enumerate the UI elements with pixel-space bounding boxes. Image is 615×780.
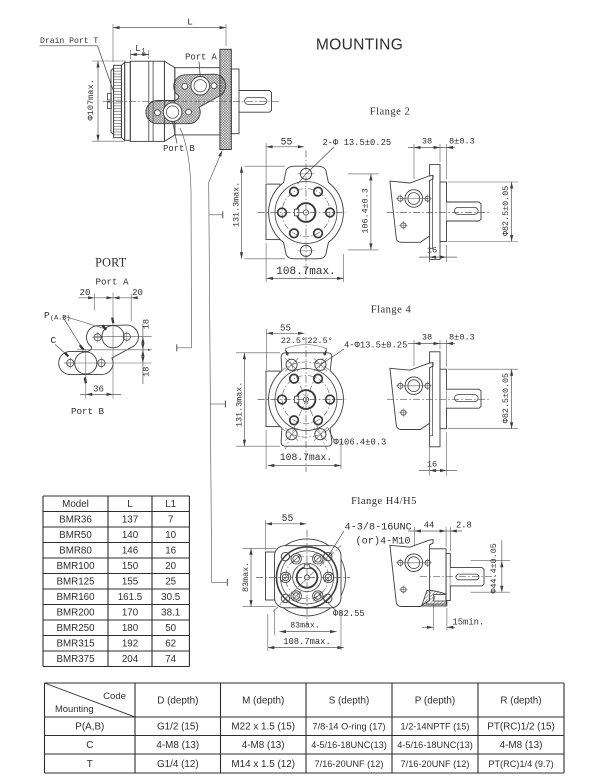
svg-text:4-M8 (13): 4-M8 (13)	[500, 740, 543, 751]
svg-text:Φ82.55: Φ82.55	[333, 609, 365, 619]
svg-text:Φ106.4±0.3: Φ106.4±0.3	[334, 438, 387, 448]
svg-text:M22 x 1.5 (15): M22 x 1.5 (15)	[231, 722, 295, 733]
svg-text:Φ82.5±0.05: Φ82.5±0.05	[501, 373, 511, 423]
svg-text:204: 204	[122, 654, 139, 665]
svg-text:7: 7	[168, 515, 173, 526]
svg-text:PORT: PORT	[95, 256, 127, 270]
svg-text:150: 150	[122, 561, 139, 572]
svg-text:(A.B): (A.B)	[50, 315, 70, 323]
svg-text:62: 62	[165, 639, 176, 650]
svg-text:M14 x 1.5 (12): M14 x 1.5 (12)	[231, 759, 295, 770]
svg-text:T: T	[87, 759, 93, 770]
svg-text:38.1: 38.1	[161, 608, 180, 619]
svg-text:7/16-20UNF (12): 7/16-20UNF (12)	[401, 759, 470, 769]
svg-text:20: 20	[132, 288, 143, 298]
svg-text:74: 74	[165, 654, 176, 665]
svg-text:55: 55	[280, 323, 291, 334]
svg-text:16: 16	[427, 246, 437, 256]
svg-text:Mounting: Mounting	[55, 703, 94, 714]
svg-text:1: 1	[142, 48, 146, 55]
svg-text:7/8-14 O-ring (17): 7/8-14 O-ring (17)	[312, 722, 385, 732]
svg-text:50: 50	[165, 623, 176, 634]
svg-text:131.3max.: 131.3max.	[235, 382, 245, 427]
svg-text:108.7max.: 108.7max.	[283, 637, 331, 647]
svg-text:18: 18	[142, 319, 152, 329]
svg-text:L: L	[187, 17, 193, 28]
svg-text:Flange H4/H5: Flange H4/H5	[351, 496, 417, 507]
svg-text:2-Φ 13.5±0.25: 2-Φ 13.5±0.25	[323, 138, 392, 148]
svg-text:Φ107max.: Φ107max.	[86, 79, 96, 120]
svg-text:P (depth): P (depth)	[415, 696, 455, 707]
svg-text:2.8: 2.8	[456, 521, 472, 531]
svg-text:Drain Port T: Drain Port T	[40, 37, 98, 46]
svg-text:BMR125: BMR125	[56, 577, 95, 588]
svg-text:Port A: Port A	[95, 277, 129, 288]
svg-text:137: 137	[122, 515, 138, 526]
svg-text:16: 16	[427, 460, 437, 470]
svg-text:BMR100: BMR100	[56, 561, 95, 572]
svg-text:L1: L1	[165, 499, 176, 510]
svg-text:108.7max.: 108.7max.	[280, 452, 332, 463]
svg-text:20: 20	[80, 288, 91, 298]
svg-text:4-M8 (13): 4-M8 (13)	[242, 740, 285, 751]
svg-text:55: 55	[281, 137, 293, 148]
svg-text:155: 155	[122, 577, 139, 588]
svg-text:83max.: 83max.	[290, 622, 319, 631]
svg-text:S (depth): S (depth)	[329, 696, 370, 707]
svg-text:(or)4-M10: (or)4-M10	[356, 536, 411, 548]
svg-text:4-5/16-18UNC(13): 4-5/16-18UNC(13)	[311, 740, 387, 750]
svg-text:44: 44	[424, 521, 435, 531]
svg-text:L: L	[127, 499, 133, 510]
svg-text:16: 16	[165, 546, 176, 557]
svg-text:Code: Code	[103, 691, 126, 702]
svg-text:Model: Model	[62, 499, 89, 510]
svg-text:8±0.3: 8±0.3	[449, 137, 475, 147]
svg-text:10: 10	[165, 530, 176, 541]
svg-text:G1/2 (15): G1/2 (15)	[157, 722, 199, 733]
svg-text:G1/4 (12): G1/4 (12)	[157, 759, 199, 770]
svg-text:C: C	[86, 740, 93, 751]
svg-text:C: C	[51, 335, 57, 346]
svg-text:Φ44.4±0.05: Φ44.4±0.05	[489, 543, 499, 593]
svg-text:4-Φ13.5±0.25: 4-Φ13.5±0.25	[344, 341, 407, 351]
svg-text:18: 18	[142, 367, 152, 377]
svg-text:Port B: Port B	[71, 406, 105, 417]
svg-text:4-5/16-18UNC(13): 4-5/16-18UNC(13)	[397, 740, 473, 750]
svg-text:Port A: Port A	[185, 53, 217, 63]
svg-text:Flange 4: Flange 4	[371, 305, 412, 316]
svg-text:P(A,B): P(A,B)	[75, 722, 104, 733]
svg-text:L: L	[135, 43, 141, 54]
svg-text:PT(RC)1/2 (15): PT(RC)1/2 (15)	[487, 722, 555, 733]
svg-text:30.5: 30.5	[161, 592, 181, 603]
svg-text:8±0.3: 8±0.3	[449, 333, 475, 343]
svg-text:25: 25	[165, 577, 176, 588]
svg-text:R (depth): R (depth)	[500, 696, 541, 707]
svg-text:161.5: 161.5	[118, 592, 143, 603]
svg-text:4-3/8-16UNC: 4-3/8-16UNC	[345, 522, 412, 534]
svg-text:131.3max.: 131.3max.	[232, 182, 242, 227]
svg-text:D (depth): D (depth)	[157, 696, 198, 707]
svg-text:7/16-20UNF (12): 7/16-20UNF (12)	[315, 759, 384, 769]
svg-text:BMR375: BMR375	[56, 654, 95, 665]
svg-text:BMR36: BMR36	[59, 515, 92, 526]
svg-text:38: 38	[422, 333, 432, 343]
svg-text:Φ82.5±0.05: Φ82.5±0.05	[501, 186, 511, 236]
svg-text:15min.: 15min.	[453, 618, 485, 628]
svg-text:55: 55	[282, 513, 294, 524]
svg-text:20: 20	[165, 561, 176, 572]
svg-text:106.4±0.3: 106.4±0.3	[361, 188, 371, 233]
svg-text:108.7max.: 108.7max.	[276, 266, 335, 278]
svg-text:BMR200: BMR200	[56, 608, 95, 619]
svg-text:4-M8 (13): 4-M8 (13)	[156, 740, 199, 751]
svg-text:Flange 2: Flange 2	[370, 107, 410, 118]
svg-text:170: 170	[122, 608, 139, 619]
svg-text:146: 146	[122, 546, 139, 557]
svg-text:BMR315: BMR315	[56, 639, 95, 650]
svg-text:140: 140	[122, 530, 139, 541]
svg-text:PT(RC)1/4 (9.7): PT(RC)1/4 (9.7)	[488, 759, 553, 769]
svg-text:83max.: 83max.	[241, 562, 251, 592]
svg-text:BMR80: BMR80	[59, 546, 92, 557]
svg-text:22.5°: 22.5°	[308, 336, 333, 346]
svg-text:36: 36	[93, 385, 104, 395]
svg-text:38: 38	[422, 137, 432, 147]
svg-text:192: 192	[122, 639, 138, 650]
svg-text:Port B: Port B	[163, 144, 195, 154]
svg-text:BMR160: BMR160	[56, 592, 95, 603]
svg-text:MOUNTING: MOUNTING	[316, 37, 403, 54]
svg-text:BMR50: BMR50	[59, 530, 92, 541]
svg-text:M (depth): M (depth)	[242, 696, 284, 707]
svg-text:BMR250: BMR250	[56, 623, 95, 634]
svg-text:180: 180	[122, 623, 139, 634]
svg-text:1/2-14NPTF (15): 1/2-14NPTF (15)	[401, 722, 470, 732]
